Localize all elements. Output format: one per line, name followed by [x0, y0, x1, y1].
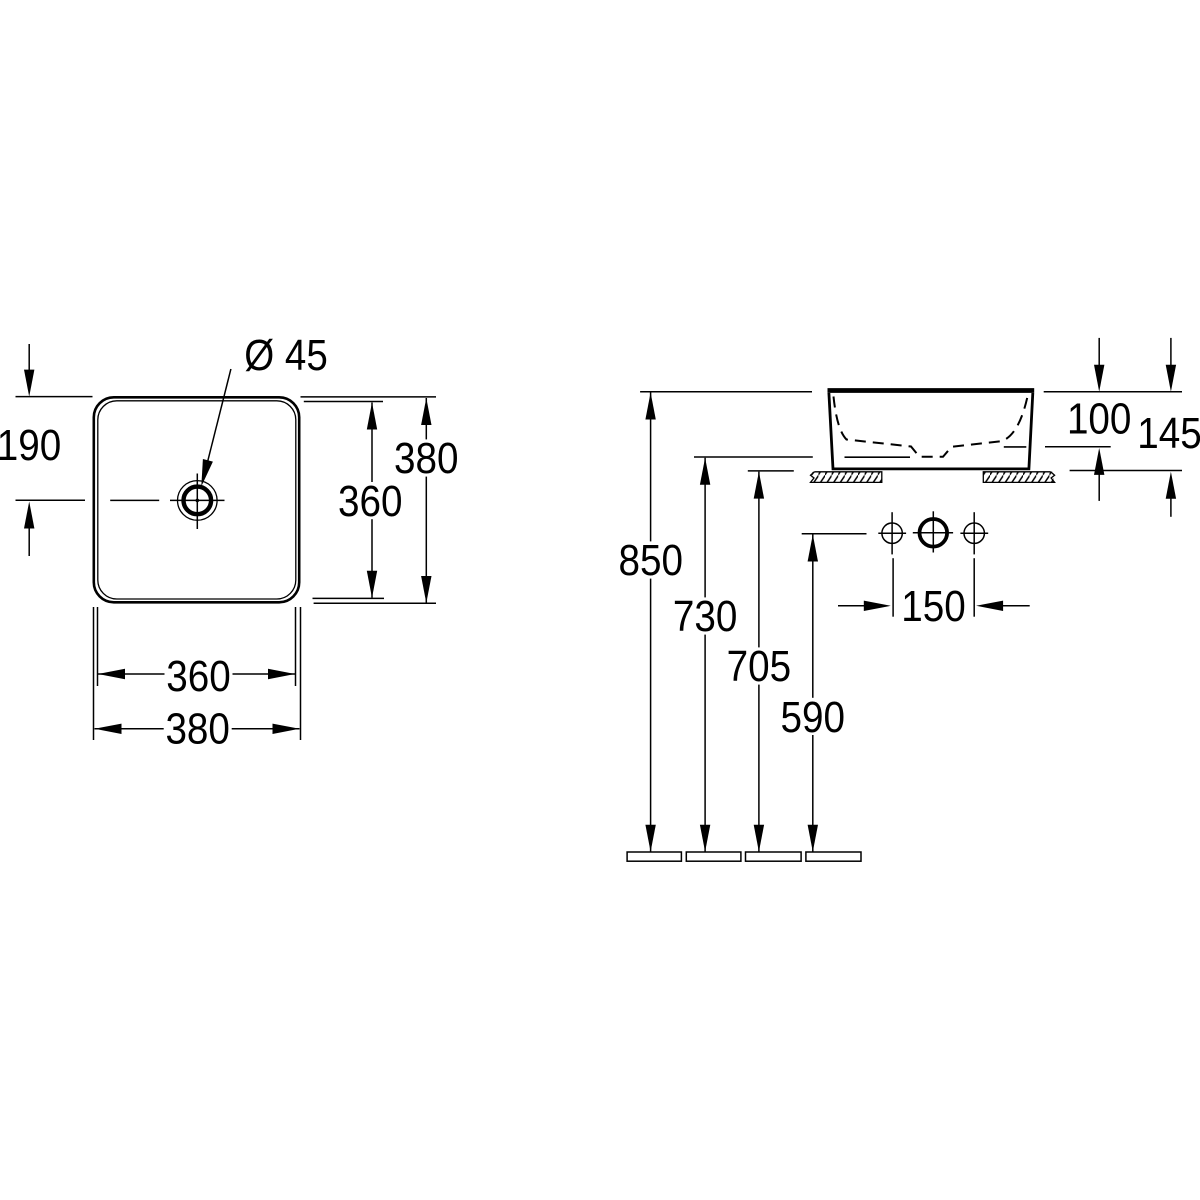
dim 360 vertical text: [336, 482, 404, 519]
svg-text:145: 145: [1137, 409, 1200, 458]
svg-text:590: 590: [781, 693, 846, 742]
svg-text:730: 730: [673, 592, 738, 641]
dim 380 horizontal line: [95, 728, 300, 730]
faucet hole small left: [882, 523, 902, 543]
dim 360 horizontal: left extension: [97, 607, 99, 686]
label Ø 45: [242, 336, 330, 373]
dim 380 vertical line: [425, 398, 427, 603]
extension line at rim level left of basin (850): [640, 391, 812, 393]
dim 850 vertical line: [650, 393, 652, 852]
dim 190: bottom arrow (up): [28, 528, 30, 556]
basin interior bottom line left: [845, 456, 911, 458]
dim 190: top extension line: [16, 396, 93, 398]
dim 360 horizontal text: [165, 657, 233, 694]
basin outer rim (top view): [94, 397, 299, 602]
extension line at faucet level (590): [802, 533, 867, 535]
dim 360 vertical: top extension: [304, 401, 383, 403]
tap hole center dot: [196, 499, 200, 503]
counter hatch strip right: [983, 472, 1054, 483]
floor tile 2: [686, 852, 741, 861]
dim 730 vertical line: [704, 458, 706, 852]
dim 100: top arrow (down): [1098, 338, 1100, 365]
floor tile 4: [806, 852, 861, 861]
basin interior hidden profile (dashed): [834, 397, 1028, 457]
dim 380 horizontal: left extension: [93, 607, 95, 740]
extension line at rim level right of basin (100/145): [1044, 391, 1182, 393]
dim 145: top arrow (down): [1170, 338, 1172, 365]
svg-text:850: 850: [619, 536, 684, 585]
tap hole crosshair horizontal: [170, 499, 225, 501]
extension line at counter level (705): [748, 470, 794, 472]
extension line at 100 bottom (interior right level): [1045, 446, 1111, 448]
svg-text:380: 380: [394, 434, 459, 483]
dim 150: left extension: [892, 558, 894, 617]
faucet hole large center: [920, 519, 948, 547]
dim 190: center extension line: [16, 499, 86, 501]
dim 705 vertical line: [758, 472, 760, 852]
dim 380 vertical: bottom extension: [314, 602, 436, 604]
counter hatch strip left: [811, 472, 882, 483]
basin interior bottom line right: [1004, 446, 1027, 448]
faucet hole small right: [964, 523, 984, 543]
dim 730 text: [671, 597, 739, 634]
svg-text:705: 705: [727, 642, 792, 691]
dim 100: bottom arrow (up): [1098, 474, 1100, 501]
dim 705 text: [725, 647, 793, 684]
dim 360 horizontal: right extension: [295, 607, 297, 686]
dim 360 vertical: bottom extension: [313, 597, 385, 599]
dim 380 horizontal text: [164, 710, 232, 747]
dim 360 horizontal line: [98, 673, 295, 675]
dim 590 vertical line: [812, 535, 814, 852]
tap hole bold circle: [184, 487, 212, 515]
dim 190: top arrow (down): [28, 344, 30, 371]
tap hole crosshair vertical: [196, 474, 198, 530]
svg-text:150: 150: [901, 582, 966, 631]
dim 360 vertical line: [371, 403, 373, 598]
dim 590 text: [779, 698, 847, 735]
dim 145: bottom arrow (up): [1170, 498, 1172, 517]
svg-text:100: 100: [1067, 394, 1132, 443]
dim 380 vertical: top extension: [301, 396, 437, 398]
floor tile 1: [627, 852, 681, 861]
dim 150: right arrow (points left): [1003, 605, 1030, 607]
leader line for hole diameter: [206, 369, 231, 468]
svg-text:Ø 45: Ø 45: [244, 331, 328, 380]
floor tile 3: [746, 852, 802, 861]
dim 150: left arrow (points right): [838, 605, 865, 607]
basin side view top edge (bold): [828, 388, 1035, 393]
dim 380 vertical text: [392, 439, 460, 476]
basin side view walls and bottom: [829, 393, 1033, 469]
svg-text:360: 360: [338, 477, 403, 526]
extension line at interior bottom level (730): [694, 456, 813, 458]
svg-text:380: 380: [165, 704, 230, 753]
svg-text:360: 360: [166, 652, 231, 701]
centerline dash left of hole: [110, 499, 159, 501]
leader arrowhead: [201, 459, 213, 487]
extension line at 145 bottom (counter level right): [1070, 470, 1182, 472]
dim 150: right extension: [973, 558, 975, 617]
basin inner rim (top view): [98, 401, 296, 599]
svg-text:190: 190: [0, 421, 61, 470]
dim 850 text: [617, 541, 685, 578]
tap hole outer thin circle: [178, 481, 218, 521]
dim 380 horizontal: right extension: [300, 607, 302, 740]
